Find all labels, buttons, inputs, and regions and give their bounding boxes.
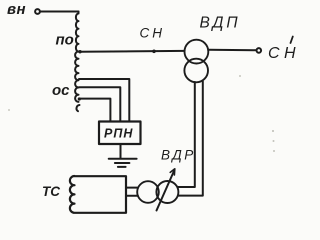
wire ВДП to СН' terminal bbox=[208, 49, 256, 51]
svg-text:ВДП: ВДП bbox=[200, 15, 241, 32]
transformer ВДП bottom circle bbox=[184, 59, 208, 83]
stub ТС to ВДР upper bbox=[126, 187, 138, 189]
wire РПН to ground bbox=[120, 144, 122, 158]
wire ВН to winding bbox=[40, 11, 79, 13]
tap changer box РПН bbox=[99, 122, 141, 145]
regulation arrow ВДР bbox=[157, 171, 175, 211]
junction dot winding tap bbox=[78, 50, 81, 53]
svg-text:вн: вн bbox=[7, 1, 26, 18]
stub ТС to ВДР lower bbox=[126, 195, 138, 197]
terminal СН' bbox=[257, 48, 262, 53]
svg-text:ТС: ТС bbox=[42, 184, 60, 199]
winding/box ТС bbox=[70, 176, 126, 213]
transformer ВДП top circle bbox=[185, 40, 209, 64]
ground bbox=[109, 159, 137, 167]
winding ПО/ОС (HV winding with taps) bbox=[75, 12, 78, 102]
wire tap 3 to РПН bbox=[79, 87, 120, 121]
transformer ВДР left circle bbox=[137, 181, 159, 203]
wire tap 4 to РПН bbox=[79, 99, 110, 122]
wire ВДП secondary down inner bbox=[178, 82, 195, 187]
wire tap 2 to РПН bbox=[79, 79, 129, 121]
transformer ВДР right circle bbox=[156, 181, 178, 203]
node СН dot bbox=[152, 50, 156, 54]
svg-text:ВДР: ВДР bbox=[161, 148, 196, 163]
terminal ВН bbox=[35, 9, 40, 14]
apostrophe of СН' bbox=[291, 37, 293, 44]
junction blob tap 4 bbox=[78, 97, 81, 100]
winding bottom tail bbox=[76, 105, 79, 111]
svg-text:СН: СН bbox=[140, 26, 166, 41]
wire tap to СН node bbox=[79, 50, 185, 53]
wire ВДП secondary down outer bbox=[178, 81, 203, 195]
svg-text:РПН: РПН bbox=[104, 127, 133, 141]
arrowhead bbox=[170, 169, 175, 175]
svg-text:ос: ос bbox=[52, 82, 70, 99]
svg-text:по: по bbox=[56, 32, 74, 49]
svg-text:СН: СН bbox=[268, 45, 300, 62]
scan specks bbox=[272, 130, 274, 132]
